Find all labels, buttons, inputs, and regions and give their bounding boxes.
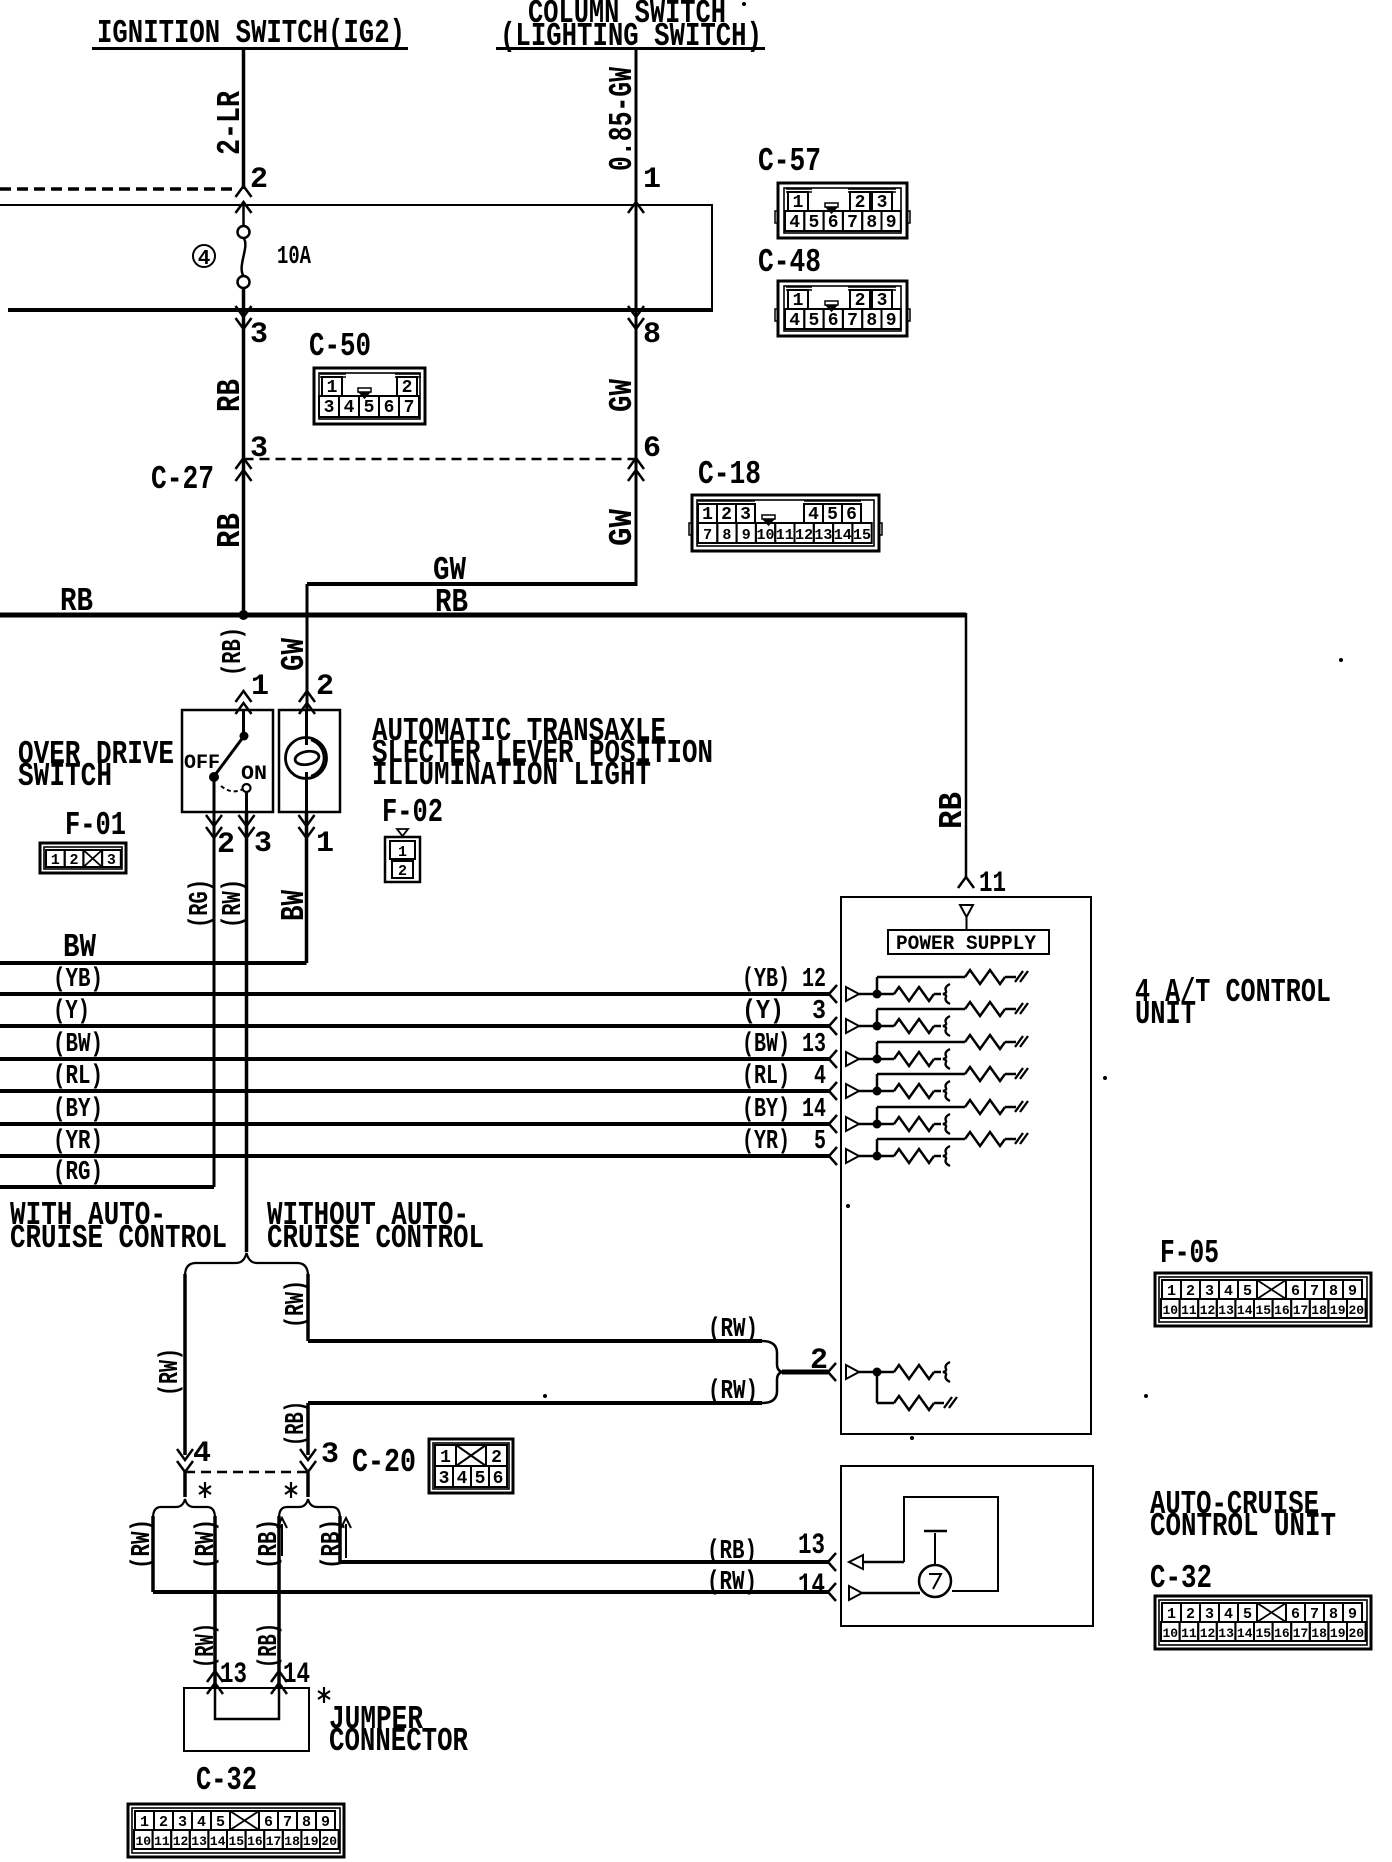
svg-text:19: 19 (1330, 1626, 1346, 1641)
svg-text:GW: GW (604, 379, 641, 412)
svg-text:10: 10 (135, 1834, 151, 1849)
svg-text:2: 2 (810, 1344, 828, 1378)
svg-text:2: 2 (217, 828, 235, 862)
svg-text:7: 7 (404, 398, 415, 418)
svg-text:15: 15 (228, 1834, 244, 1849)
svg-text:(YR): (YR) (53, 1127, 103, 1157)
svg-text:3: 3 (1205, 1606, 1214, 1623)
svg-text:ILLUMINATION LIGHT: ILLUMINATION LIGHT (372, 757, 651, 794)
svg-text:13: 13 (798, 1529, 825, 1563)
svg-text:8: 8 (1329, 1606, 1338, 1623)
svg-text:11: 11 (1181, 1626, 1197, 1641)
svg-text:19: 19 (1330, 1303, 1346, 1318)
svg-text:4: 4 (1224, 1606, 1233, 1623)
svg-text:20: 20 (1348, 1626, 1364, 1641)
svg-text:8: 8 (866, 311, 877, 331)
svg-text:(YR) 5: (YR) 5 (742, 1127, 826, 1157)
svg-text:13: 13 (814, 527, 832, 544)
svg-text:4: 4 (457, 1469, 468, 1489)
svg-text:13: 13 (1218, 1303, 1234, 1318)
svg-text:14: 14 (210, 1834, 226, 1849)
svg-text:(RW): (RW) (192, 1519, 222, 1569)
svg-text:9: 9 (321, 1814, 330, 1831)
svg-text:2: 2 (159, 1814, 168, 1831)
svg-text:2: 2 (316, 670, 334, 704)
svg-text:OFF: OFF (184, 752, 220, 775)
svg-text:10: 10 (756, 527, 774, 544)
svg-text:(YB): (YB) (53, 965, 103, 995)
svg-text:(BW) 13: (BW) 13 (742, 1030, 826, 1060)
svg-text:(RW): (RW) (708, 1315, 758, 1345)
svg-text:9: 9 (886, 311, 897, 331)
svg-text:C-32: C-32 (196, 1762, 257, 1799)
svg-text:3: 3 (107, 852, 116, 869)
svg-text:14: 14 (834, 527, 852, 544)
svg-text:14: 14 (798, 1569, 825, 1603)
svg-text:12: 12 (1200, 1626, 1216, 1641)
svg-text:3: 3 (1205, 1283, 1214, 1300)
svg-text:6: 6 (1291, 1606, 1300, 1623)
svg-text:6: 6 (1291, 1283, 1300, 1300)
svg-text:12: 12 (1200, 1303, 1216, 1318)
svg-text:3: 3 (178, 1814, 187, 1831)
svg-text:4: 4 (197, 1814, 206, 1831)
svg-text:7: 7 (1310, 1606, 1319, 1623)
svg-text:C-18: C-18 (698, 456, 761, 493)
svg-text:9: 9 (1348, 1283, 1357, 1300)
svg-text:1: 1 (1167, 1283, 1176, 1300)
svg-text:4: 4 (789, 311, 800, 331)
svg-text:(RW): (RW) (156, 1348, 186, 1396)
svg-text:16: 16 (1274, 1626, 1290, 1641)
svg-text:12: 12 (173, 1834, 189, 1849)
svg-text:17: 17 (1293, 1303, 1309, 1318)
svg-text:F-02: F-02 (382, 794, 443, 831)
svg-text:C-57: C-57 (758, 143, 821, 180)
svg-text:3: 3 (250, 318, 268, 352)
svg-text:8: 8 (1329, 1283, 1338, 1300)
svg-text:CONNECTOR: CONNECTOR (329, 1723, 468, 1760)
svg-text:(RG): (RG) (53, 1158, 103, 1188)
svg-text:BW: BW (63, 929, 96, 966)
svg-text:C-48: C-48 (758, 244, 821, 281)
svg-text:1: 1 (1167, 1606, 1176, 1623)
svg-text:UNIT: UNIT (1135, 996, 1196, 1033)
svg-text:9: 9 (742, 527, 751, 544)
svg-text:(YB) 12: (YB) 12 (742, 965, 826, 995)
svg-text:7: 7 (703, 527, 712, 544)
svg-text:(Y): (Y) (53, 997, 90, 1027)
svg-text:SWITCH: SWITCH (18, 758, 112, 795)
svg-text:5: 5 (475, 1469, 486, 1489)
svg-text:2-LR: 2-LR (212, 91, 249, 155)
svg-text:8: 8 (722, 527, 731, 544)
svg-text:1: 1 (251, 670, 269, 704)
svg-text:2: 2 (1186, 1283, 1195, 1300)
svg-text:C-20: C-20 (352, 1444, 416, 1481)
svg-text:1: 1 (316, 827, 334, 861)
svg-text:(RG): (RG) (186, 879, 216, 928)
svg-text:0.85-GW: 0.85-GW (604, 67, 641, 171)
svg-text:2: 2 (398, 863, 407, 880)
svg-text:5: 5 (1243, 1283, 1252, 1300)
svg-text:POWER SUPPLY: POWER SUPPLY (896, 933, 1036, 956)
svg-text:1: 1 (398, 844, 407, 861)
svg-text:(RL) 4: (RL) 4 (742, 1062, 826, 1092)
svg-text:6: 6 (828, 213, 839, 233)
svg-text:14: 14 (283, 1658, 310, 1692)
svg-text:2: 2 (250, 163, 268, 197)
svg-text:6: 6 (384, 398, 395, 418)
svg-text:14: 14 (1237, 1626, 1253, 1641)
svg-text:4: 4 (789, 213, 800, 233)
svg-text:(RB): (RB) (219, 627, 249, 676)
svg-text:5: 5 (1243, 1606, 1252, 1623)
svg-text:3: 3 (254, 827, 272, 861)
svg-text:11: 11 (776, 527, 794, 544)
svg-text:GW: GW (276, 638, 313, 671)
svg-text:IGNITION SWITCH(IG2): IGNITION SWITCH(IG2) (97, 15, 405, 52)
svg-text:10A: 10A (277, 241, 311, 271)
svg-text:11: 11 (1181, 1303, 1197, 1318)
svg-text:RB: RB (212, 513, 249, 548)
svg-text:3: 3 (250, 432, 268, 466)
svg-text:17: 17 (1293, 1626, 1309, 1641)
svg-text:16: 16 (1274, 1303, 1290, 1318)
svg-text:15: 15 (1255, 1626, 1271, 1641)
svg-text:9: 9 (886, 213, 897, 233)
svg-text:CRUISE CONTROL: CRUISE CONTROL (267, 1220, 484, 1257)
svg-text:15: 15 (1255, 1303, 1271, 1318)
svg-text:11: 11 (154, 1834, 170, 1849)
svg-text:8: 8 (302, 1814, 311, 1831)
svg-text:C-27: C-27 (151, 461, 214, 498)
svg-text:8: 8 (866, 213, 877, 233)
svg-text:(RL): (RL) (53, 1062, 103, 1092)
svg-text:17: 17 (266, 1834, 282, 1849)
svg-text:(RB): (RB) (707, 1537, 757, 1567)
svg-text:13: 13 (220, 1658, 247, 1692)
svg-text:4: 4 (1224, 1283, 1233, 1300)
svg-text:(RW): (RW) (708, 1377, 758, 1407)
svg-text:1: 1 (51, 852, 60, 869)
svg-text:(RW): (RW) (707, 1568, 757, 1598)
svg-text:13: 13 (1218, 1626, 1234, 1641)
svg-text:(RW): (RW) (219, 879, 249, 928)
svg-text:(RB): (RB) (255, 1519, 285, 1569)
svg-text:20: 20 (1348, 1303, 1364, 1318)
svg-text:12: 12 (795, 527, 813, 544)
svg-text:15: 15 (853, 527, 871, 544)
svg-text:(BY): (BY) (53, 1095, 103, 1125)
svg-text:18: 18 (1311, 1303, 1327, 1318)
svg-text:9: 9 (1348, 1606, 1357, 1623)
svg-text:(RW): (RW) (192, 1623, 222, 1668)
svg-text:(RB): (RB) (255, 1623, 285, 1668)
svg-text:18: 18 (1311, 1626, 1327, 1641)
svg-text:18: 18 (284, 1834, 300, 1849)
svg-text:7: 7 (847, 213, 858, 233)
svg-text:F-05: F-05 (1160, 1235, 1219, 1272)
svg-text:19: 19 (303, 1834, 319, 1849)
svg-text:CONTROL UNIT: CONTROL UNIT (1150, 1508, 1336, 1545)
svg-text:1: 1 (140, 1814, 149, 1831)
svg-text:GW: GW (604, 509, 641, 546)
svg-text:CRUISE CONTROL: CRUISE CONTROL (10, 1220, 227, 1257)
svg-text:C-50: C-50 (309, 328, 371, 365)
svg-text:4: 4 (193, 1437, 211, 1471)
svg-text:3: 3 (321, 1438, 339, 1472)
svg-text:20: 20 (321, 1834, 337, 1849)
svg-text:5: 5 (216, 1814, 225, 1831)
svg-text:1: 1 (643, 163, 661, 197)
svg-text:(Y) 3: (Y) 3 (742, 997, 826, 1027)
svg-text:16: 16 (247, 1834, 263, 1849)
svg-text:3: 3 (324, 398, 335, 418)
svg-text:6: 6 (264, 1814, 273, 1831)
svg-text:3: 3 (439, 1469, 450, 1489)
svg-text:6: 6 (643, 432, 661, 466)
svg-text:ON: ON (241, 763, 267, 786)
svg-text:5: 5 (364, 398, 375, 418)
svg-text:10: 10 (1162, 1626, 1178, 1641)
svg-text:8: 8 (643, 318, 661, 352)
svg-text:RB: RB (212, 379, 249, 412)
svg-text:4: 4 (198, 248, 211, 271)
svg-text:5: 5 (808, 213, 819, 233)
svg-text:14: 14 (1237, 1303, 1253, 1318)
svg-text:4: 4 (344, 398, 355, 418)
svg-text:13: 13 (191, 1834, 207, 1849)
svg-text:F-01: F-01 (65, 807, 126, 844)
svg-text:2: 2 (1186, 1606, 1195, 1623)
svg-text:C-32: C-32 (1150, 1560, 1212, 1597)
svg-text:RB: RB (934, 792, 971, 829)
svg-text:(RB): (RB) (282, 1401, 312, 1446)
svg-text:2: 2 (69, 852, 78, 869)
svg-text:7: 7 (847, 311, 858, 331)
svg-text:(BW): (BW) (53, 1030, 103, 1060)
svg-text:11: 11 (979, 867, 1006, 901)
svg-text:(RW): (RW) (282, 1280, 312, 1328)
svg-text:(BY) 14: (BY) 14 (742, 1095, 826, 1125)
svg-text:7: 7 (1310, 1283, 1319, 1300)
svg-text:6: 6 (493, 1469, 504, 1489)
svg-text:(RW): (RW) (128, 1519, 158, 1569)
svg-text:5: 5 (808, 311, 819, 331)
svg-text:6: 6 (828, 311, 839, 331)
svg-text:10: 10 (1162, 1303, 1178, 1318)
svg-text:7: 7 (283, 1814, 292, 1831)
